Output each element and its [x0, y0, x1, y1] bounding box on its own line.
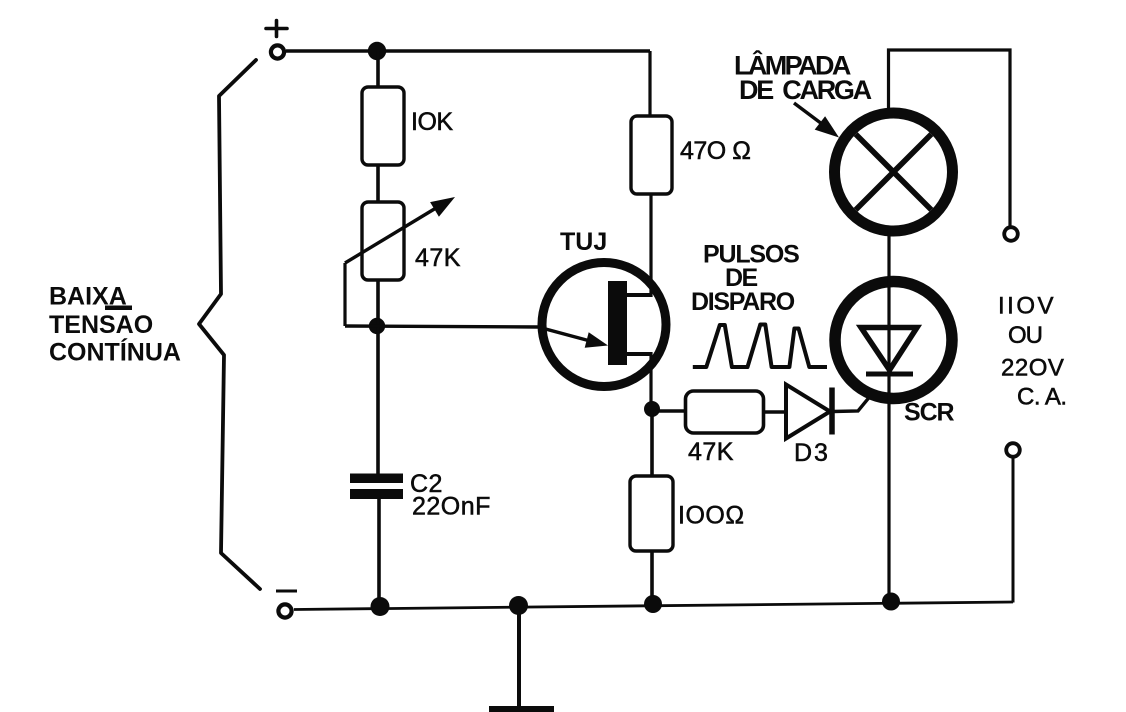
bottom rail wire	[294, 602, 1013, 610]
wire 470 to UJT base junction	[649, 194, 652, 297]
resistor 100 ohm	[630, 476, 673, 551]
resistor R 10K	[362, 87, 404, 165]
svg-text:SCR: SCR	[904, 399, 955, 427]
lamp circle	[835, 113, 953, 231]
wire junction to 47K horizontal	[655, 409, 686, 412]
wire 10K to pot	[376, 165, 380, 205]
transistor TUJ circle	[542, 263, 666, 387]
AC terminal lower circle	[1006, 443, 1020, 457]
wire 47K to D3	[763, 410, 787, 413]
label BAIXA TENSAO CONTINUA	[49, 283, 181, 367]
wire lamp top loop	[889, 50, 1011, 226]
svg-text:DISPARO: DISPARO	[691, 288, 795, 316]
svg-text:22OV: 22OV	[1001, 355, 1064, 382]
tilde bar of TENSAO	[105, 306, 132, 311]
ground node junction	[509, 596, 528, 615]
minus sign	[276, 590, 297, 593]
svg-text:IOOΩ: IOOΩ	[678, 502, 745, 530]
svg-text:OU: OU	[1008, 322, 1042, 349]
node junction UJT base1	[644, 401, 660, 417]
battery bracket	[199, 60, 260, 589]
node junction SCR-rail	[882, 593, 900, 611]
lamp X	[856, 134, 932, 210]
wire plus node to 10K	[376, 51, 380, 90]
top rail wire	[286, 49, 650, 52]
node junction top	[368, 42, 386, 60]
wire pot to C2	[376, 280, 380, 475]
wire C2 to rail	[377, 499, 381, 606]
svg-text:22OnF: 22OnF	[412, 493, 491, 521]
svg-text:IIOV: IIOV	[998, 293, 1056, 320]
svg-text:IOK: IOK	[411, 108, 453, 136]
minus terminal circle	[278, 604, 291, 617]
SCR cathode bar	[866, 372, 913, 377]
diode D3 cathode bar	[829, 388, 835, 435]
svg-text:47O Ω: 47O Ω	[680, 137, 750, 165]
gate wire D3 to SCR	[833, 372, 890, 412]
svg-text:47K: 47K	[688, 438, 734, 466]
node junction 100-rail	[644, 595, 662, 613]
plus terminal symbol	[266, 21, 287, 37]
node junction pot-emitter	[369, 318, 385, 334]
SCR triangle	[861, 328, 917, 371]
wire lamp through SCR to rail	[887, 229, 890, 601]
svg-text:47K: 47K	[415, 244, 461, 272]
svg-text:TENSAO: TENSAO	[49, 311, 153, 339]
lampada arrow	[794, 103, 822, 124]
wire AC lower to rail	[1012, 457, 1015, 603]
pot wiper tail wire	[343, 263, 346, 326]
capacitor C2 plates	[350, 474, 403, 484]
resistor 47K horizontal	[686, 391, 764, 433]
trigger pulses waveform	[693, 325, 827, 368]
diode D3 triangle	[786, 385, 830, 439]
svg-text:TUJ: TUJ	[560, 228, 607, 256]
svg-text:C. A.: C. A.	[1017, 384, 1067, 411]
potentiometer arrow	[345, 208, 436, 263]
plus terminal circle	[271, 45, 284, 58]
AC terminal top circle	[1004, 227, 1018, 241]
TUJ base bar	[608, 281, 627, 365]
emitter wire with arrow	[345, 326, 592, 342]
svg-text:D3: D3	[794, 439, 830, 467]
ground bar	[489, 706, 554, 712]
label 110V OU 220V CA	[998, 293, 1067, 411]
node junction C2-rail	[371, 597, 390, 616]
SCR circle	[835, 282, 952, 399]
potentiometer 47K body	[362, 202, 404, 280]
wire 100 ohm to rail	[650, 551, 654, 604]
svg-text:DE CARGA: DE CARGA	[739, 75, 872, 105]
resistor 470 ohm	[631, 116, 672, 194]
wire 470 corner down	[648, 51, 651, 118]
svg-text:CONTÍNUA: CONTÍNUA	[49, 338, 181, 367]
label PULSOS DE DISPARO	[691, 241, 799, 317]
wire junction to 100 ohm	[650, 409, 654, 477]
TUJ base leads	[627, 293, 651, 297]
ground wire	[517, 605, 521, 707]
